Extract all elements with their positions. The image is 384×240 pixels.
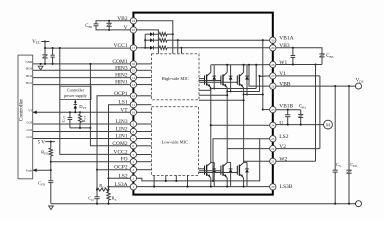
- wire high MIC emitter sense 3: [199, 99, 244, 101]
- svg-text:LO3: LO3: [27, 120, 33, 124]
- node row1 output: [172, 33, 174, 35]
- svg-text:23: 23: [271, 137, 275, 141]
- resistor RB3 bootstrap: [159, 46, 167, 49]
- wire low-side MIC sense drop: [187, 175, 189, 186]
- wire row2 out: [167, 39, 178, 41]
- ground signal triangle: [38, 66, 43, 69]
- pin 30 VB1A: [270, 37, 276, 43]
- wire W1 external: [276, 64, 322, 66]
- pin 15 HIN3: [130, 67, 136, 73]
- wire LIN3 internal stub: [137, 123, 152, 125]
- resistor RB1 bootstrap: [159, 33, 167, 36]
- node Q1 emitter rail tap: [210, 87, 212, 89]
- wire V2 internal: [227, 148, 270, 150]
- wire GND to COM2 vertical: [90, 64, 130, 146]
- wire FO internal stub: [137, 161, 152, 163]
- pin 4 FO: [130, 159, 136, 165]
- wire bootstrap row2 anode: [145, 39, 150, 41]
- node W1 riser junction: [255, 64, 257, 66]
- node CB3 ceramic top: [292, 47, 294, 49]
- wire LS2 internal rail: [137, 139, 270, 181]
- wire low gate drive 3: [199, 172, 237, 174]
- wire power supply to DVT: [74, 100, 76, 104]
- wire VCC rail to VCC1: [45, 47, 130, 49]
- svg-text:5 V: 5 V: [38, 140, 46, 145]
- wire V2 external: [276, 148, 320, 150]
- svg-text:Low-side MIC: Low-side MIC: [161, 139, 188, 144]
- wire row3 mid: [154, 47, 160, 49]
- motor M: [324, 120, 333, 129]
- wire V external: [96, 26, 130, 30]
- resistor RS shunt: [107, 192, 110, 200]
- pin 23 LS2: [270, 136, 276, 142]
- node sense2 tap: [226, 94, 228, 96]
- wire ground rail: [51, 203, 356, 205]
- arrow VT into controller: [33, 111, 37, 115]
- wire row3 out: [167, 47, 182, 49]
- wire U pin line: [211, 124, 270, 126]
- wire Q5 collector stub: [227, 161, 230, 163]
- svg-text:28: 28: [271, 63, 275, 67]
- svg-text:5: 5: [133, 153, 135, 157]
- svg-text:VDC: VDC: [356, 79, 365, 84]
- node sense3 tap: [243, 99, 245, 101]
- wire U external: [276, 124, 324, 126]
- node LS2 kelvin: [212, 180, 214, 182]
- pin 27 V1: [270, 73, 276, 79]
- svg-text:8: 8: [133, 130, 135, 134]
- transistor Q6 low-side IGBT: [236, 166, 238, 175]
- diode D1 high-side freewheel: [213, 65, 215, 89]
- capacitor CB1 electrolytic: [300, 110, 302, 115]
- wire W phase vertical: [315, 65, 317, 162]
- pin 20 LS3B: [270, 184, 276, 190]
- wire V1 riser: [260, 76, 270, 92]
- wire Q2 emitter/phase vertical: [226, 88, 228, 163]
- svg-text:18: 18: [132, 28, 136, 32]
- wire V emitter sense rail: [227, 91, 259, 93]
- wire Q4 collector stub: [211, 161, 214, 163]
- wire VCC stub: [41, 41, 49, 43]
- diode DB2 bootstrap: [150, 38, 154, 42]
- diode D3 high-side freewheel: [246, 65, 248, 95]
- arrow fault into controller: [33, 168, 37, 172]
- node GND triangle tap: [40, 63, 42, 65]
- transistor Q1 high-side IGBT: [204, 75, 206, 84]
- wire LS1 internal stub: [137, 104, 152, 106]
- node D3 anode: [246, 93, 248, 95]
- pin 18 V: [130, 27, 136, 33]
- wire VBB external: [276, 85, 356, 87]
- svg-text:15: 15: [132, 69, 136, 73]
- svg-text:21: 21: [271, 160, 275, 164]
- svg-text:M: M: [326, 122, 330, 127]
- resistor RVT: [79, 112, 81, 114]
- wire VCC drop: [44, 42, 46, 49]
- wire low gate drive 1: [199, 168, 205, 170]
- node sense drop: [165, 180, 167, 182]
- node W phase tap: [314, 63, 316, 65]
- terminal VDC: [356, 83, 362, 89]
- svg-text:VB1A: VB1A: [279, 36, 293, 42]
- node VCC2 branch: [59, 47, 61, 49]
- wire FO to fault vertical: [50, 162, 52, 170]
- low-side MIC block: [152, 107, 199, 176]
- node row2 output: [177, 39, 179, 41]
- svg-text:High-side MIC: High-side MIC: [162, 76, 189, 81]
- svg-text:19: 19: [132, 19, 136, 23]
- node VCC1/bootstrap junction: [144, 47, 146, 49]
- diode DVT zener: [74, 105, 78, 109]
- node DVT anode: [74, 111, 76, 113]
- pin 3 OCP2: [130, 167, 136, 173]
- capacitor CV2 VCC ceramic: [52, 48, 54, 55]
- wire V internal: [137, 30, 159, 54]
- svg-text:power supply: power supply: [64, 93, 88, 98]
- svg-text:25: 25: [271, 108, 275, 112]
- wire OCP1 internal stub: [137, 95, 152, 97]
- wire VB1B internal stub: [263, 109, 270, 111]
- IPM module IC outline: [133, 13, 272, 195]
- wire VB1A-VB1B internal vertical: [262, 40, 264, 109]
- node CDC tap: [348, 85, 350, 87]
- wire VB2 internal: [137, 21, 173, 34]
- svg-text:2: 2: [133, 177, 135, 181]
- wire row2 mid: [154, 39, 160, 41]
- pin 17 VCC1: [130, 45, 136, 51]
- svg-text:14: 14: [132, 76, 136, 80]
- controller block: [18, 55, 33, 179]
- svg-text:6: 6: [133, 144, 135, 148]
- wire Q2 collector: [226, 65, 228, 73]
- capacitor CV1 VCC electrolytic: [44, 48, 46, 55]
- wire HIN3 internal stub: [137, 69, 152, 71]
- wire U emitter sense rail: [211, 88, 256, 90]
- wire HIN1 line: [33, 84, 131, 86]
- node Q4 emitter: [210, 186, 212, 188]
- wire row1 drop to high-side MIC: [172, 34, 174, 54]
- node DVT cathode: [74, 101, 76, 103]
- node CVT top: [69, 111, 71, 113]
- capacitor CB3 ceramic: [292, 48, 294, 56]
- wire row2 to VB1A: [178, 39, 270, 41]
- node CS gnd: [334, 203, 336, 205]
- pin 1 LS3A: [130, 184, 136, 190]
- node CB1 ceramic bottom: [287, 124, 289, 126]
- svg-text:VB1B: VB1B: [279, 103, 293, 109]
- node RVT top: [79, 111, 81, 113]
- wire FO line: [51, 161, 131, 163]
- svg-text:Fault: Fault: [26, 169, 33, 173]
- node CDC gnd: [348, 203, 350, 205]
- wire low-side MIC sense drop: [153, 175, 155, 186]
- wire row1 mid: [154, 33, 160, 35]
- wire OCP2 internal stub: [137, 169, 152, 171]
- node RVT bottom: [79, 127, 81, 129]
- node Cs tap: [334, 85, 336, 87]
- pin 8 LIN2: [130, 128, 136, 134]
- capacitor CB3 electrolytic: [319, 53, 324, 55]
- capacitor CFO: [50, 170, 52, 181]
- transistor Q5 low-side IGBT: [220, 166, 222, 175]
- node OCP2 junction: [96, 169, 98, 171]
- wire low-side MIC sense drop: [175, 175, 177, 181]
- svg-text:29: 29: [271, 46, 275, 50]
- ground triangle: [49, 206, 54, 209]
- wire row2 drop to high-side MIC: [177, 40, 179, 54]
- pin 19 VB2: [130, 18, 136, 24]
- capacitor CDC bulk: [348, 86, 350, 170]
- svg-text:HO3: HO3: [26, 67, 32, 71]
- wire W1 riser: [256, 65, 270, 89]
- wire LIN1 internal stub: [137, 138, 152, 140]
- wire high MIC emitter sense 1: [199, 89, 211, 91]
- wire HIN1 internal stub: [137, 84, 152, 86]
- node VT-COM2 vertical: [89, 127, 91, 129]
- svg-text:27: 27: [271, 74, 275, 78]
- svg-text:LS2: LS2: [279, 134, 288, 140]
- wire high MIC emitter sense 2: [199, 94, 227, 96]
- svg-text:9: 9: [133, 122, 135, 126]
- svg-text:22: 22: [271, 147, 275, 151]
- wire VT rail: [33, 111, 130, 113]
- svg-text:30: 30: [271, 38, 275, 42]
- wire LS2 line: [109, 177, 131, 179]
- pin 24 U: [270, 122, 276, 128]
- diode D6 low-side freewheel: [246, 162, 248, 186]
- capacitor CVT: [69, 112, 71, 117]
- wire Q6 collector stub: [244, 161, 247, 163]
- wire VCC2 internal stub: [137, 154, 152, 156]
- wire COM1 internal stub: [137, 63, 152, 65]
- diode D2 high-side freewheel: [230, 65, 232, 92]
- pin 5 VCC2: [130, 151, 136, 157]
- pin 2 LS2: [130, 175, 136, 181]
- wire fault line: [33, 169, 51, 171]
- wire VCC1 to bootstrap feed: [137, 47, 150, 49]
- terminal ground: [356, 201, 362, 207]
- wire LS vertical: [108, 178, 110, 192]
- node VCC cap2: [52, 47, 54, 49]
- wire LS1 line: [109, 105, 131, 179]
- capacitor CB1 ceramic: [287, 110, 289, 115]
- wire LIN3 line: [33, 123, 131, 125]
- svg-text:24: 24: [271, 124, 275, 128]
- node D1 anode: [213, 87, 215, 89]
- wire VB2 external: [96, 21, 130, 24]
- capacitor CS snubber: [334, 86, 336, 170]
- wire LS3A-LS3B internal rail: [137, 186, 270, 188]
- wire LIN2 internal stub: [137, 131, 152, 133]
- diode D4 low-side freewheel: [213, 162, 215, 186]
- wire bootstrap feed vertical: [144, 34, 146, 48]
- diode DB3 bootstrap: [150, 46, 154, 50]
- node sense drop: [153, 186, 155, 188]
- node Q2 emitter rail tap: [226, 90, 228, 92]
- wire V1 external: [276, 75, 320, 77]
- node CB2e bottom: [108, 29, 110, 31]
- wire VCC2 long vertical: [60, 48, 131, 154]
- pin 22 V2: [270, 145, 276, 151]
- node CB1 ceramic top: [287, 109, 289, 111]
- wire W2 external: [276, 160, 316, 162]
- node CB1e bottom: [300, 124, 302, 126]
- pin 16 COM1: [130, 61, 136, 67]
- wire Q3 collector: [243, 65, 245, 73]
- svg-text:CB2: CB2: [85, 24, 92, 29]
- wire VB1B external: [276, 109, 301, 111]
- wire row3 to VB3: [182, 47, 270, 49]
- resistor RO: [97, 188, 109, 191]
- wire Q1 emitter/phase vertical: [210, 88, 212, 163]
- resistor RB2 bootstrap: [159, 39, 167, 42]
- wire HIN2 internal stub: [137, 77, 152, 79]
- wire VT internal stub: [137, 111, 152, 113]
- wire low gate drive 2: [199, 170, 221, 172]
- svg-text:HO1: HO1: [26, 81, 32, 85]
- transistor Q4 low-side IGBT: [204, 166, 206, 175]
- svg-text:4: 4: [133, 160, 135, 164]
- wire Q1 collector: [210, 65, 212, 73]
- node Q6 emitter: [243, 186, 245, 188]
- wire Q6 emitter drop: [243, 178, 245, 187]
- wire OCP2 line: [97, 169, 130, 171]
- pin 6 COM2: [130, 143, 136, 149]
- node cap1 gnd: [44, 63, 46, 65]
- node LS2 junction: [107, 177, 109, 179]
- wire LIN1 line: [33, 138, 131, 140]
- node U phase tap: [210, 124, 212, 126]
- svg-text:CB1: CB1: [299, 105, 306, 110]
- svg-text:12: 12: [132, 94, 136, 98]
- wire high gate drive 2: [199, 80, 221, 82]
- wire high gate drive 3: [199, 81, 237, 83]
- transistor Q3 high-side IGBT: [236, 75, 238, 84]
- svg-text:17: 17: [132, 46, 136, 50]
- controller power supply block: [60, 86, 91, 99]
- svg-text:LO1: LO1: [27, 135, 33, 139]
- node CB3 ceramic bottom: [292, 63, 294, 65]
- node VCC: [44, 40, 46, 42]
- svg-text:U: U: [279, 121, 283, 127]
- node RO left: [96, 189, 98, 191]
- wire low-side MIC sense drop: [165, 175, 167, 181]
- node Q3 emitter rail tap: [243, 93, 245, 95]
- pin 21 W2: [270, 158, 276, 164]
- svg-text:26: 26: [271, 84, 275, 88]
- capacitor CO filter: [94, 196, 99, 198]
- wire Q5 emitter drop: [226, 178, 228, 187]
- pin 25 VB1B: [270, 106, 276, 112]
- wire LS3A line: [109, 186, 131, 188]
- wire bootstrap row1 anode: [145, 33, 150, 35]
- node cap2 gnd: [52, 63, 54, 65]
- node RS gnd: [107, 203, 109, 205]
- wire LIN2 line: [33, 131, 131, 133]
- wire VBB feed: [249, 65, 270, 86]
- wire high-side collector bus: [211, 64, 256, 66]
- pin 12 OCP1: [130, 93, 136, 99]
- diode D5 low-side freewheel: [230, 162, 232, 186]
- capacitor CB2 electrolytic: [108, 21, 110, 24]
- svg-text:HO2: HO2: [26, 74, 32, 78]
- pin 13 HIN1: [130, 81, 136, 87]
- svg-text:13: 13: [132, 83, 136, 87]
- pin 7 LIN1: [130, 135, 136, 141]
- wire GND rail COM1: [33, 63, 131, 65]
- svg-text:CB3: CB3: [326, 54, 333, 59]
- node fault branch: [50, 169, 52, 171]
- wire Q3 emitter/phase vertical: [243, 88, 245, 163]
- wire row1 out: [167, 33, 173, 35]
- svg-text:GND: GND: [25, 60, 32, 64]
- capacitor CB2 ceramic: [94, 23, 99, 25]
- node Q3 collector bus: [243, 64, 245, 66]
- pin 9 LIN3: [130, 121, 136, 127]
- node W rail bootstrap crossing: [262, 93, 264, 95]
- resistor RFO pullup: [50, 142, 52, 149]
- wire VB3 external: [276, 48, 322, 54]
- node RO right: [107, 189, 109, 191]
- wire VT network bottom rail: [70, 127, 91, 129]
- transistor Q2 high-side IGBT: [220, 75, 222, 84]
- svg-text:3: 3: [133, 168, 135, 172]
- wire 5V stub: [45, 141, 55, 143]
- svg-text:10: 10: [132, 111, 136, 115]
- node GND-COM2 top: [89, 63, 91, 65]
- svg-text:11: 11: [132, 103, 136, 107]
- node CO gnd: [96, 203, 98, 205]
- node CB2e top: [108, 20, 110, 22]
- diode DB1 bootstrap: [150, 32, 154, 36]
- svg-text:LS3B: LS3B: [280, 184, 293, 190]
- svg-text:Controller: Controller: [18, 99, 24, 121]
- node bootstrap row2 feed: [144, 39, 146, 41]
- svg-text:1: 1: [133, 185, 135, 189]
- svg-text:20: 20: [271, 185, 275, 189]
- node Q2 collector bus: [226, 64, 228, 66]
- node sense drop: [175, 180, 177, 182]
- svg-text:7: 7: [133, 137, 135, 141]
- node row3 output: [180, 47, 182, 49]
- svg-text:LO2: LO2: [27, 128, 33, 132]
- node LS3A junction: [107, 186, 109, 188]
- node VBB bus tap: [248, 64, 250, 66]
- wire row3 drop to high-side MIC: [181, 48, 183, 54]
- pin 14 HIN2: [130, 74, 136, 80]
- svg-text:16: 16: [132, 62, 136, 66]
- wire OCP filter vertical: [96, 170, 98, 197]
- wire HIN3 line: [33, 69, 131, 71]
- pin 10 VT: [130, 109, 136, 115]
- pin 28 W1: [270, 61, 276, 67]
- wire W2 internal: [244, 160, 270, 162]
- wire COM2 internal stub: [137, 145, 152, 147]
- wire OCP1 line: [97, 96, 130, 170]
- wire V phase vertical: [319, 76, 321, 149]
- node 5V: [50, 141, 52, 143]
- wire LS2 kelvin branch: [213, 139, 260, 181]
- wire Q4 emitter drop: [210, 178, 212, 187]
- node sense drop: [186, 186, 188, 188]
- wire bootstrap row3 anode: [145, 47, 150, 49]
- wire HIN2 line: [33, 77, 131, 79]
- node VB1B internal: [262, 109, 264, 111]
- node RFO-FO junction: [50, 161, 52, 163]
- node D2 anode: [230, 90, 232, 92]
- pin 26 VBB: [270, 83, 276, 89]
- pin 11 LS1: [130, 102, 136, 108]
